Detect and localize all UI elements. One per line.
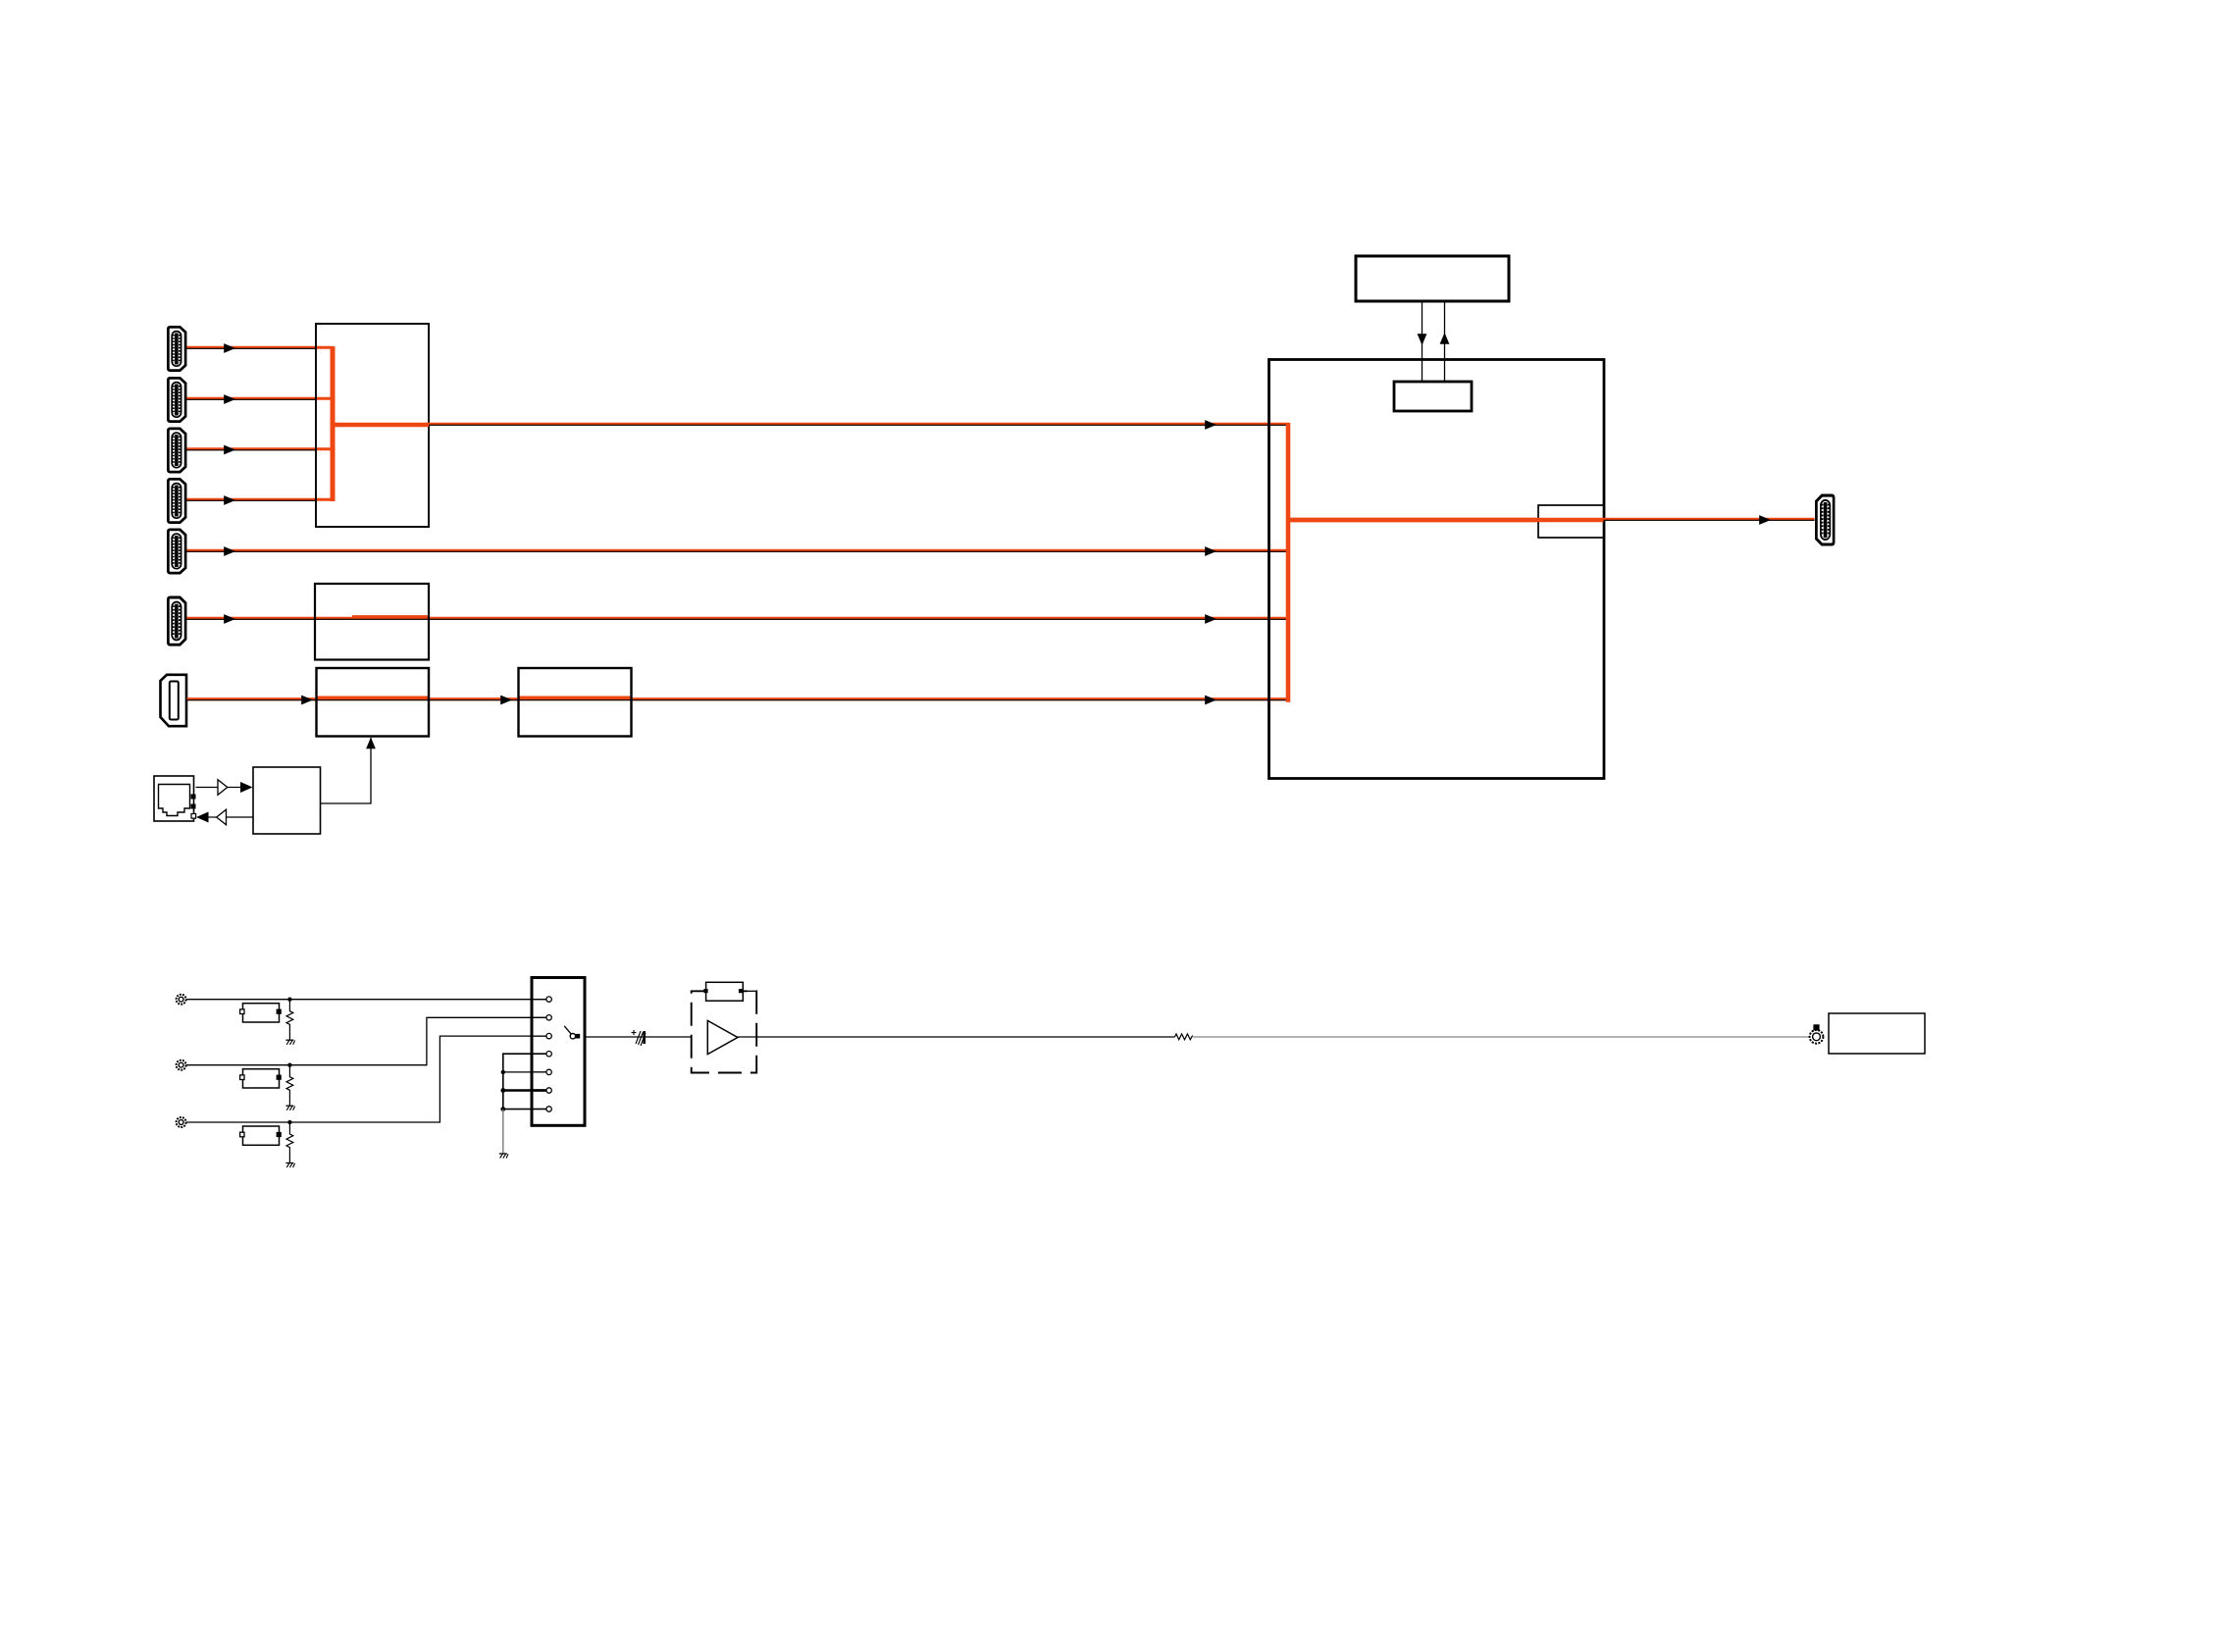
wire CN7 through U3 and U4 to SoC [187, 698, 1290, 700]
HDMI input connector CN5 [168, 530, 185, 573]
orange highlight U1 output [331, 423, 429, 427]
RC network on J3 line [240, 1120, 295, 1167]
RC network on J1 line [240, 998, 295, 1045]
HDMI input connector CN3 [168, 429, 185, 472]
arrows on CN5 wire [224, 546, 235, 556]
headphone jack J4 [1810, 1024, 1824, 1043]
audio switch SW1 [532, 978, 585, 1126]
orange highlight trunk inside U1 [331, 346, 336, 501]
orange highlight U6 output run [1286, 518, 1604, 522]
arrows on CN6 wire [224, 614, 235, 624]
switch output wire to amp [585, 1036, 692, 1038]
bus U7 up line [1444, 301, 1446, 382]
SW1 pin 2 [532, 1015, 551, 1020]
HDMI input connector CN4 [168, 479, 185, 522]
coupling capacitor C1 [632, 1030, 647, 1046]
wire U6 to output connector CN9 [1604, 519, 1815, 520]
wire CN1 to HDMI switch U1 [187, 347, 334, 348]
arrow up on bus [1440, 333, 1450, 344]
arrow down on bus [1418, 334, 1427, 345]
SW1 pin 7 [532, 1107, 551, 1111]
arrow on CN4 wire [224, 495, 235, 505]
audio input jack J1 [177, 995, 186, 1005]
buffer A2 (from U5) [208, 809, 253, 825]
wire CN5 to SoC [187, 550, 1290, 551]
arrows on CN7 wire [301, 696, 313, 705]
audio input jack J3 [177, 1117, 186, 1127]
amplifier unit U8 (dashed) [692, 991, 757, 1072]
wire R11 to headphone jack J4 [1193, 1036, 1810, 1038]
arrow into CN8 [196, 812, 209, 823]
interface block inside U6 [1394, 382, 1472, 411]
processor U4 [519, 668, 632, 737]
ground under SW1 bus [499, 1154, 508, 1159]
feedback resistor R10 [692, 982, 757, 1001]
wire CN3 to HDMI switch U1 [187, 449, 334, 450]
arrow on CN3 wire [224, 445, 235, 455]
receiver U3 [317, 668, 430, 737]
SW1 pin 5 [532, 1069, 551, 1074]
SW1 pin 4 [532, 1052, 551, 1057]
wire CN4 to HDMI switch U1 [187, 499, 334, 500]
wire U1 to SoC (selected HDMI) [429, 424, 1289, 425]
service connector CN8 [154, 776, 196, 821]
repeater U2 [315, 584, 429, 660]
SW1 pin 1 [532, 997, 551, 1002]
HDMI input connector CN6 [168, 597, 185, 645]
arrow on CN2 wire [224, 394, 235, 404]
wire amp to output [738, 1036, 1175, 1038]
output driver block (on U6 right edge) [1538, 505, 1604, 538]
bus U7 down line [1422, 301, 1423, 382]
SoC main IC U6 [1269, 360, 1605, 779]
HDMI switch U1 [316, 324, 429, 527]
SW1 selector lever [564, 1026, 580, 1039]
wire J1 to switch SW1 pin1 [186, 999, 546, 1001]
HDMI output connector CN9 [1816, 495, 1834, 544]
ground bus left of SW1 [500, 1054, 546, 1111]
op-amp A3 [707, 1020, 738, 1054]
bus ground tail [502, 1110, 504, 1154]
wire CN2 to HDMI switch U1 [187, 398, 334, 399]
HDMI input connector CN7 (side view) [161, 675, 187, 726]
arrow on U1-SoC wire [1205, 420, 1216, 430]
arrow on CN1 wire [224, 343, 235, 353]
series resistor R11 [1174, 1034, 1192, 1040]
HDMI input connector CN2 [168, 378, 185, 421]
arrow into U3 bottom [366, 738, 376, 749]
wire J3 to switch SW1 pin3 [186, 1036, 546, 1122]
HDMI input connector CN1 [168, 327, 185, 370]
buffer A1 (to U5) [196, 780, 241, 796]
arrow on CN9 wire [1759, 515, 1771, 525]
orange highlight through output driver [1286, 518, 1604, 522]
orange highlight trunk inside U6 [1286, 423, 1291, 702]
control block U5 [253, 767, 321, 834]
wire CN6 through repeater U2 to SoC [187, 617, 1290, 619]
SW1 pin 6 [532, 1088, 551, 1093]
wire U5 to U3 [321, 738, 372, 803]
SW1 pin 3 [532, 1033, 551, 1038]
audio input jack J2 [177, 1060, 186, 1070]
arrow into U5 [240, 782, 253, 793]
memory block U7 (top) [1356, 256, 1509, 301]
RC network on J2 line [240, 1063, 295, 1110]
headphone block U9 [1829, 1013, 1925, 1054]
wire J2 to switch SW1 pin2 [186, 1017, 546, 1064]
